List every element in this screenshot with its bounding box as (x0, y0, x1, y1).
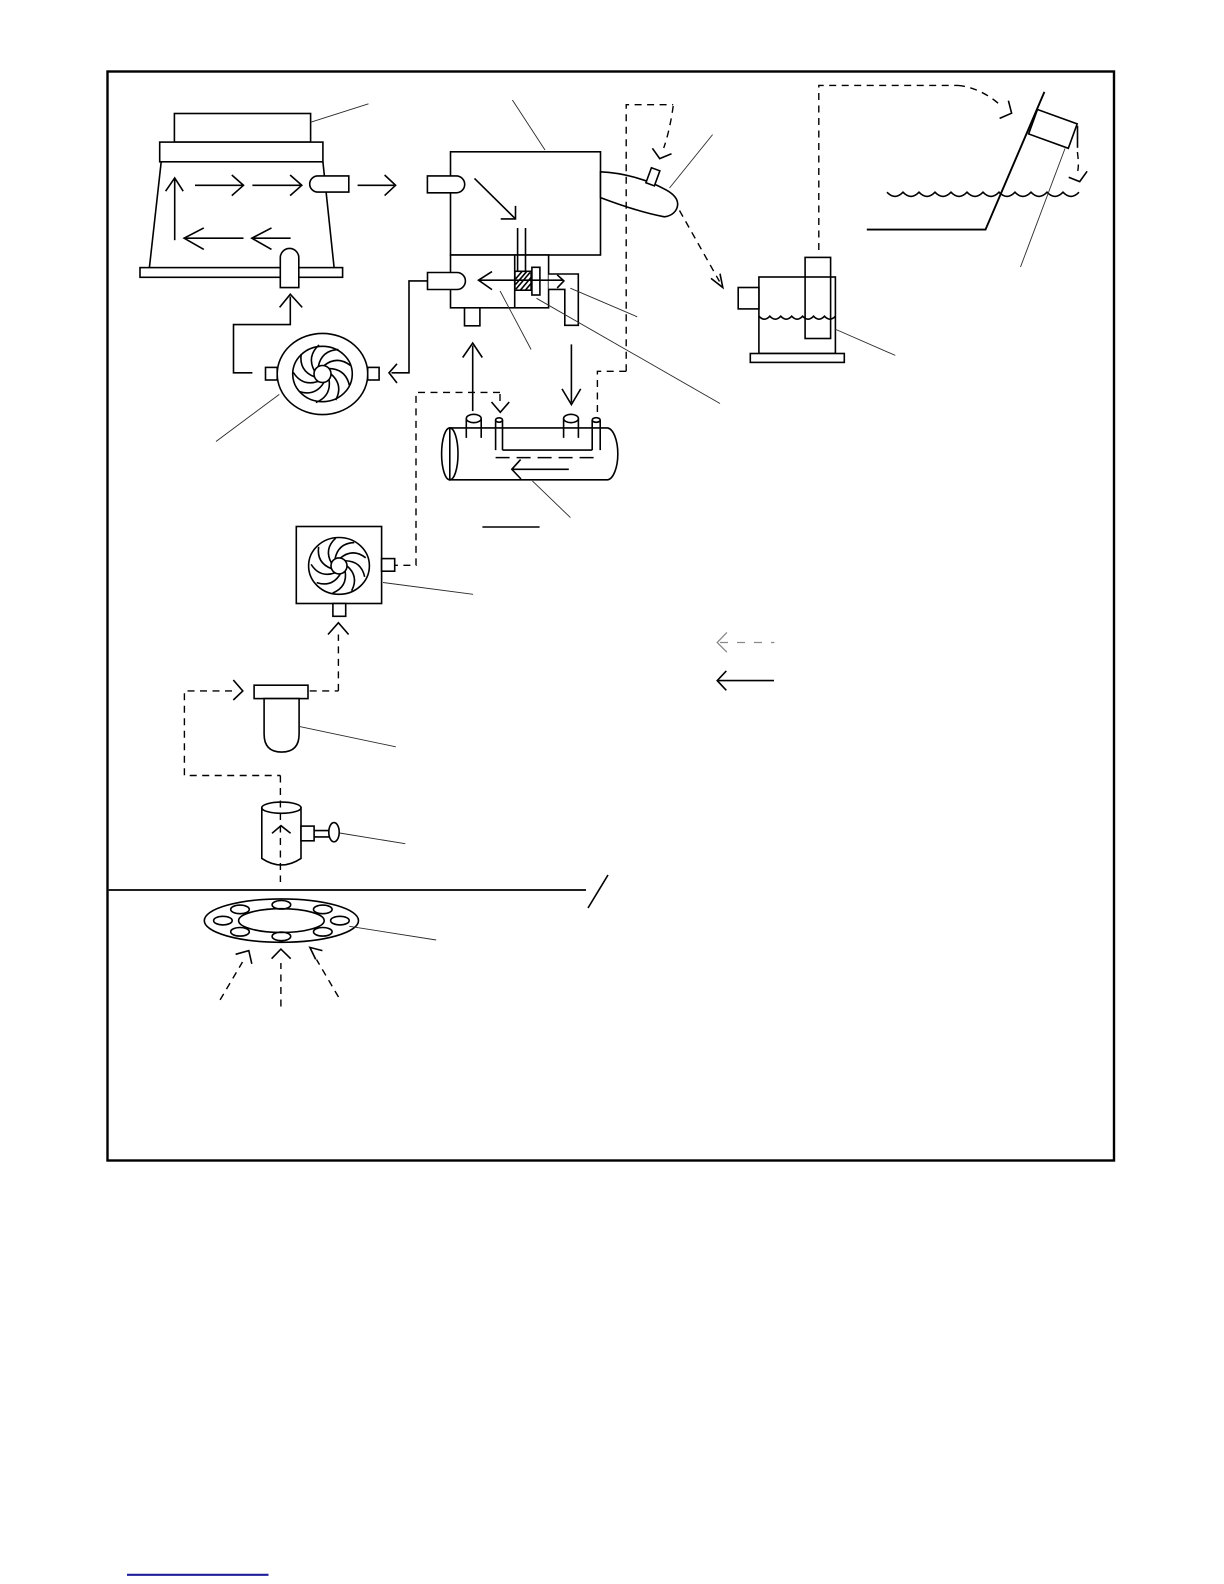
outlet discharge dashed arrow (1076, 152, 1079, 171)
strainer flange (254, 685, 308, 698)
sea inlet arrow right (317, 960, 339, 998)
coolant pump left stub (266, 367, 278, 380)
coolant pump right stub (368, 367, 379, 380)
through-hull flange outer (204, 899, 358, 942)
arrowhead at transom outlet (1000, 101, 1012, 119)
arrow heat exchanger to engine (472, 346, 474, 412)
radiator top band (160, 142, 323, 162)
engine leader (512, 100, 545, 150)
raw water path to heat exchanger dashed (597, 371, 626, 412)
expansion tank inlet stub (738, 288, 759, 309)
exhaust hose (601, 172, 678, 217)
expansion tank water line (759, 316, 836, 319)
through-hull leader (349, 926, 436, 940)
legend coolant arrow solid (719, 680, 775, 682)
sea inlet arrow left (220, 962, 242, 1000)
raw water path engine area dashed (626, 105, 673, 372)
coolant pump impeller blades (292, 344, 352, 405)
engine internal diagonal arrow (475, 178, 516, 219)
thermostat leader short (570, 288, 637, 317)
electric fan leader (383, 583, 473, 595)
engine flow arrow left (480, 279, 563, 281)
seacock top (262, 802, 301, 813)
arrowhead into tube 1 (492, 402, 510, 412)
seacock leader (340, 833, 406, 844)
electric fan ring (309, 538, 370, 595)
pipe engine to pump (392, 281, 428, 373)
radiator body side left (149, 162, 161, 268)
radiator internal up arrow (174, 179, 176, 240)
heat exchanger raw water tube 2 (592, 420, 600, 450)
coolant pump body (277, 333, 368, 414)
through-hull flange inner (239, 909, 325, 933)
strainer leader (300, 727, 396, 747)
electric fan hub (331, 558, 347, 574)
sea inlet arrow middle (280, 963, 282, 1007)
engine coolant inlet stub (427, 176, 464, 193)
raw water dashed path to fan (396, 392, 501, 565)
radiator cap (174, 114, 310, 143)
heat exchanger coolant inlet stub right (564, 419, 579, 438)
heat exchanger shell (450, 428, 618, 480)
heat exchanger raw water tube 1 (496, 420, 503, 450)
radiator leader (311, 104, 368, 122)
thermostat housing partition (514, 255, 516, 308)
strainer bowl (264, 699, 299, 753)
sea surface wavy line (887, 192, 1079, 196)
expansion tank leader (835, 329, 896, 355)
radiator body side right (323, 162, 334, 268)
engine block (451, 152, 601, 255)
seacock centerline dashed (279, 776, 281, 883)
footer blue line (127, 1574, 269, 1576)
through-hull bolt holes (214, 901, 350, 941)
engine lower section (451, 255, 549, 308)
engine leg (465, 308, 480, 326)
electric fan box (296, 527, 381, 604)
outlet fitting leader (1021, 149, 1066, 268)
heat exchanger tube bundle solid line (503, 449, 593, 451)
radiator internal left arrow 1 (186, 237, 244, 239)
seacock handle rod (314, 831, 329, 837)
heat exchanger left end (442, 428, 458, 480)
thermostat leader long (537, 298, 721, 403)
thermostat plate (532, 267, 540, 295)
expansion tank body (759, 277, 836, 354)
dashed path strainer to fan (337, 635, 339, 691)
electric fan right stub (382, 559, 395, 572)
transom outlet fitting (1029, 109, 1078, 148)
engine leader lower (500, 291, 531, 350)
electric fan bottom stub (333, 604, 346, 617)
radiator internal right arrow 2 (252, 184, 300, 186)
arrowhead into radiator drain (280, 294, 303, 307)
thermostat hatched element (515, 271, 531, 290)
seacock body (262, 808, 301, 865)
coolant pump leader (216, 394, 279, 441)
coolant pump inner ring (293, 346, 353, 401)
radiator base plate (140, 268, 343, 278)
expansion tank base (750, 354, 844, 363)
arrowhead into pump (389, 364, 397, 383)
thermostat outlet elbow (549, 274, 579, 325)
hose leader (670, 135, 713, 188)
thermostat feed lines (518, 228, 526, 271)
heat exchanger leader (532, 481, 570, 518)
coolant pump hub (314, 366, 331, 383)
radiator internal right arrow 1 (195, 184, 243, 186)
hose to tank dashed arrow (680, 211, 720, 282)
heat exchanger label underline (482, 526, 539, 528)
outlet fitting edge line (1077, 126, 1079, 148)
hull line (109, 889, 586, 891)
seacock handle knob (329, 823, 339, 842)
radiator internal left arrow 2 (254, 237, 291, 239)
seacock flow arrowhead (272, 826, 291, 834)
dashed path seacock to strainer (184, 691, 280, 776)
radiator drain tube (280, 248, 299, 287)
pipe pump to radiator (234, 297, 291, 373)
expansion tank standpipe (805, 257, 831, 338)
hose petcock (646, 168, 660, 186)
arrowhead into strainer (233, 680, 243, 700)
engine flow arrow right (557, 275, 564, 288)
electric fan blades (310, 537, 367, 595)
boat transom and bottom (867, 92, 1045, 230)
radiator outlet pipe (310, 176, 349, 192)
legend raw water arrow dashed (720, 642, 774, 644)
engine coolant outlet stub (428, 273, 466, 290)
arrow engine to heat exchanger (570, 344, 572, 402)
standpipe vent dashed (819, 85, 958, 250)
arrow radiator to engine (358, 184, 395, 186)
heat exchanger internal flow arrow (513, 468, 569, 470)
arrowhead at petcock (652, 148, 671, 158)
seacock handle stub (301, 826, 314, 841)
heat exchanger tube bundle hidden line (496, 457, 601, 459)
hull break slash (588, 875, 608, 908)
heat exchanger coolant inlet stub left (466, 419, 481, 438)
